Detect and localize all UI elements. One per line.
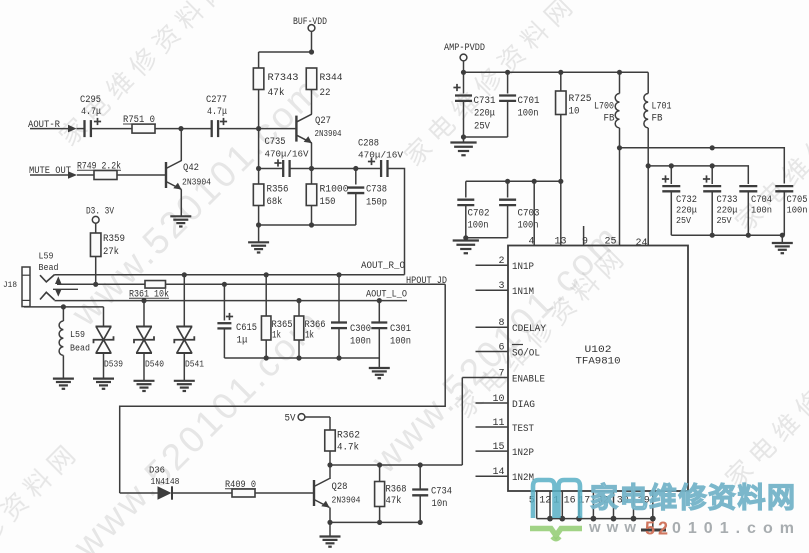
power 5V: [285, 414, 331, 431]
node junction: [256, 166, 261, 171]
svg-text:BUF-VDD: BUF-VDD: [293, 17, 327, 28]
resistor R365: [261, 275, 292, 358]
svg-text:15: 15: [492, 442, 504, 453]
svg-text:100n: 100n: [518, 221, 539, 232]
node junction: [710, 145, 715, 150]
node junction: [327, 520, 332, 525]
svg-text:6: 6: [498, 342, 504, 353]
node junction: [418, 520, 423, 525]
wire: [258, 129, 260, 169]
node junction: [61, 304, 66, 309]
svg-text:C300: C300: [350, 324, 371, 335]
capacitor C738: [347, 169, 387, 226]
svg-text:C702: C702: [468, 209, 490, 220]
node junction: [669, 163, 674, 168]
capacitor C731: [453, 72, 495, 137]
svg-text:4.7μ: 4.7μ: [207, 107, 227, 118]
pin 19 stub: [652, 491, 654, 519]
resistor R368: [375, 465, 407, 522]
wire top rail: [464, 71, 649, 73]
connector J18: [3, 267, 30, 307]
svg-text:R344: R344: [320, 73, 343, 84]
node junction: [336, 272, 341, 277]
svg-text:Q28: Q28: [332, 482, 348, 493]
wire: [255, 492, 314, 494]
wire pin9 stub: [583, 226, 585, 246]
resistor R344: [306, 68, 342, 99]
resistor R751: [123, 115, 156, 133]
node junction: [309, 166, 314, 171]
node junction: [461, 70, 466, 75]
svg-text:1k: 1k: [305, 330, 314, 342]
svg-text:D36: D36: [149, 465, 165, 476]
svg-text:100n: 100n: [751, 205, 772, 216]
svg-text:C615: C615: [236, 323, 257, 334]
wire AOUT_R_O: [55, 274, 405, 276]
resistor R409: [225, 480, 256, 497]
ground: [453, 239, 479, 241]
pin 32 stub: [613, 491, 615, 519]
node junction: [222, 282, 227, 287]
ground: [641, 529, 666, 532]
node junction: [710, 163, 715, 168]
node junction: [296, 355, 301, 360]
wire: [329, 522, 331, 536]
ground: [53, 378, 74, 380]
pin 16 stub: [578, 491, 580, 519]
wire: [258, 90, 260, 129]
svg-text:Bead: Bead: [70, 343, 90, 354]
node junction: [617, 145, 622, 150]
svg-text:10: 10: [492, 394, 504, 405]
pin 10 stub: [476, 402, 509, 404]
wire collector Q28: [329, 465, 331, 479]
svg-text:R356: R356: [267, 185, 289, 196]
svg-text:C701: C701: [518, 96, 540, 107]
ground: [772, 242, 793, 244]
logo book underline swoosh: [530, 529, 582, 536]
pin 14 stub: [476, 475, 509, 477]
wire: [781, 235, 783, 242]
svg-text:D541: D541: [185, 359, 204, 370]
wire HPOUT_JD right: [166, 283, 446, 285]
svg-text:SO/OL: SO/OL: [512, 347, 540, 359]
node junction: [532, 179, 537, 184]
svg-text:D3. 3V: D3. 3V: [86, 207, 114, 218]
capacitor C701: [464, 72, 540, 137]
svg-text:R366: R366: [305, 320, 326, 331]
capacitor C705: [775, 186, 807, 235]
svg-text:家电维修资料网: 家电维修资料网: [590, 481, 797, 513]
node junction: [611, 516, 617, 522]
svg-text:7: 7: [498, 368, 504, 379]
resistor R7343: [253, 68, 298, 99]
svg-text:100n: 100n: [518, 109, 539, 120]
svg-text:2: 2: [498, 256, 504, 267]
capacitor C704: [739, 184, 772, 236]
svg-text:4.7k: 4.7k: [337, 442, 359, 454]
node junction: [780, 233, 785, 238]
resistor R359: [90, 233, 125, 258]
svg-text:100n: 100n: [350, 337, 371, 348]
wire bottom rail: [671, 234, 784, 236]
inductor L700: [594, 72, 620, 148]
svg-text:150p: 150p: [366, 198, 387, 209]
svg-text:AOUT_L_O: AOUT_L_O: [366, 290, 407, 301]
svg-text:25V: 25V: [676, 215, 691, 226]
svg-text:J18: J18: [3, 280, 17, 290]
ground: [369, 367, 390, 369]
svg-text:R725: R725: [569, 94, 592, 105]
pin 8 stub: [476, 326, 509, 328]
node junction: [182, 272, 187, 277]
svg-text:2N3904: 2N3904: [315, 128, 342, 139]
svg-text:L59: L59: [70, 329, 85, 340]
node junction: [377, 462, 382, 467]
wire jack sleeve: [24, 306, 104, 308]
capacitor C702: [457, 181, 489, 238]
capacitor C734: [412, 465, 452, 522]
power BUF-VDD: [293, 17, 327, 52]
wire AOUT_L_O: [55, 300, 408, 302]
wire: [218, 128, 296, 130]
wire emitter Q42: [180, 190, 182, 217]
node junction: [353, 166, 358, 171]
svg-text:100n: 100n: [787, 205, 808, 216]
capacitor C703: [466, 181, 540, 238]
node junction: [463, 235, 468, 240]
ground: [170, 215, 191, 217]
svg-text:68k: 68k: [267, 196, 283, 208]
node junction: [559, 516, 565, 522]
pin 5 stub: [536, 491, 538, 519]
svg-text:4.7μ: 4.7μ: [81, 107, 101, 118]
node junction: [505, 70, 510, 75]
diode D541: [174, 275, 204, 380]
pin 7 stub ENABLE: [462, 377, 508, 379]
node junction: [309, 49, 314, 54]
node junction: [327, 462, 332, 467]
node junction: [710, 233, 715, 238]
node junction: [296, 298, 301, 303]
svg-text:470μ/16V: 470μ/16V: [265, 149, 309, 160]
wire L701 output rail: [648, 166, 748, 184]
wire bottom rail: [330, 521, 420, 523]
wire bottom rail: [258, 206, 260, 226]
resistor R725: [556, 72, 592, 181]
wire to ENABLE: [461, 378, 463, 466]
ground: [248, 241, 269, 243]
node junction: [377, 520, 382, 525]
wire collector rail: [330, 464, 462, 466]
inductor L59 bead: [59, 307, 90, 378]
svg-text:C731: C731: [474, 96, 496, 107]
svg-text:25V: 25V: [717, 215, 732, 226]
pin 11 stub: [476, 426, 509, 428]
pin 30 stub: [633, 491, 635, 519]
node junction: [576, 516, 582, 522]
svg-text:14: 14: [492, 467, 504, 478]
svg-text:2N3904: 2N3904: [182, 177, 211, 188]
capacitor C733: [703, 166, 738, 235]
svg-text:TEST: TEST: [512, 424, 534, 435]
svg-text:FB: FB: [652, 114, 663, 125]
node junction: [418, 462, 423, 467]
inductor L701: [644, 72, 672, 166]
svg-text:R365: R365: [272, 320, 293, 331]
svg-text:C277: C277: [206, 95, 227, 106]
node junction: [93, 282, 98, 287]
node junction: [617, 70, 622, 75]
svg-text:Bead: Bead: [39, 262, 59, 273]
op-amp U102 TFA9810 body: [508, 246, 688, 492]
wire: [463, 137, 465, 142]
node junction: [505, 179, 510, 184]
resistor R366: [294, 301, 325, 358]
svg-text:C734: C734: [431, 487, 452, 498]
svg-text:TFA9810: TFA9810: [576, 356, 621, 368]
svg-text:3: 3: [498, 281, 504, 292]
transistor Q27: [296, 114, 341, 143]
jack switch arrow down: [53, 289, 78, 296]
resistor R356: [253, 169, 288, 209]
svg-text:10: 10: [569, 107, 580, 118]
svg-text:220μ: 220μ: [676, 205, 697, 216]
pin 1 stub: [561, 491, 563, 519]
jack ring contact: [40, 292, 55, 300]
svg-text:C703: C703: [518, 209, 540, 220]
svg-text:100n: 100n: [468, 221, 489, 232]
svg-text:L701: L701: [652, 102, 672, 113]
wire: [155, 128, 181, 130]
svg-text:150: 150: [320, 197, 336, 208]
transistor Q28: [314, 479, 361, 508]
jack switch arrow up: [55, 276, 62, 284]
wire pin24: [647, 166, 649, 246]
svg-text:100n: 100n: [390, 337, 411, 348]
ground: [174, 380, 195, 382]
node junction: [309, 222, 314, 227]
svg-text:Q27: Q27: [315, 116, 331, 127]
pin 3 stub: [476, 289, 509, 291]
svg-text:16: 16: [564, 496, 576, 507]
svg-text:D539: D539: [104, 359, 123, 370]
transistor Q42: [166, 161, 211, 190]
wire emitter Q28: [329, 508, 331, 523]
svg-text:47k: 47k: [268, 87, 285, 99]
svg-text:C735: C735: [265, 137, 286, 148]
node junction: [461, 134, 466, 139]
capacitor C277: [206, 95, 227, 137]
power D3.3V: [86, 207, 114, 234]
node junction: [264, 272, 269, 277]
ground: [320, 535, 341, 537]
pin 15 stub: [476, 450, 509, 452]
svg-text:R7343: R7343: [268, 73, 299, 84]
wire L700 output rail: [620, 148, 785, 184]
wire pin4: [533, 181, 535, 245]
capacitor C300: [331, 275, 371, 358]
node AOUT-R: [28, 120, 85, 132]
svg-text:52: 52: [645, 519, 671, 539]
wire HPOUT_JD left: [57, 283, 145, 285]
svg-text:25V: 25V: [474, 122, 490, 133]
node MUTE_OUT: [29, 166, 94, 179]
node junction: [256, 222, 261, 227]
wire to AOUT_R_O: [388, 169, 405, 275]
svg-text:12: 12: [539, 496, 551, 507]
wire: [91, 128, 132, 130]
svg-text:1k: 1k: [272, 330, 281, 342]
svg-text:DIAG: DIAG: [512, 400, 535, 411]
wire: [378, 358, 380, 368]
wire: [258, 225, 260, 242]
capacitor C735: [259, 137, 312, 177]
pin 12 stub: [549, 491, 551, 519]
logo book icon: [533, 480, 580, 518]
svg-text:1N1M: 1N1M: [512, 287, 534, 298]
wire collector Q42: [180, 129, 182, 161]
svg-text:8: 8: [498, 318, 504, 329]
node junction: [377, 298, 382, 303]
svg-text:27k: 27k: [103, 246, 119, 258]
pin 6 SO overline: [512, 344, 523, 346]
wire bottom rail: [224, 357, 379, 359]
svg-text:1N1P: 1N1P: [512, 262, 534, 273]
wire: [117, 174, 166, 176]
node junction: [558, 179, 563, 184]
svg-text:www: www: [588, 519, 642, 536]
wire: [181, 128, 212, 130]
svg-text:47k: 47k: [386, 495, 402, 507]
svg-text:0101.com: 0101.com: [672, 520, 801, 537]
svg-text:22: 22: [320, 88, 331, 99]
capacitor C732: [662, 166, 697, 235]
svg-text:L59: L59: [39, 251, 54, 262]
wire HPOUT_JD feedback: [120, 284, 446, 493]
svg-text:FB: FB: [604, 114, 615, 125]
diode D539: [94, 307, 124, 378]
svg-text:C301: C301: [390, 324, 411, 335]
svg-text:24: 24: [635, 238, 647, 249]
wire pin25: [619, 148, 621, 246]
svg-text:AMP-PVDD: AMP-PVDD: [444, 43, 485, 54]
resistor R749: [77, 161, 121, 180]
node junction: [646, 163, 651, 168]
svg-text:220μ: 220μ: [474, 109, 495, 120]
svg-text:10n: 10n: [432, 499, 448, 510]
wire: [258, 52, 260, 68]
node junction: [264, 355, 269, 360]
pin 6 stub: [476, 351, 509, 353]
svg-text:HPOUT_JD: HPOUT_JD: [406, 276, 447, 287]
capacitor C288: [358, 139, 403, 178]
wire emitter Q27: [311, 143, 313, 169]
capacitor C295: [80, 95, 101, 137]
svg-text:U102: U102: [585, 344, 612, 356]
svg-text:2N3904: 2N3904: [332, 495, 361, 506]
svg-text:D540: D540: [145, 359, 164, 370]
resistor R1000: [306, 169, 348, 209]
ground: [450, 141, 476, 143]
svg-text:L700: L700: [594, 102, 614, 113]
capacitor C615: [217, 284, 257, 358]
node junction: [650, 516, 656, 522]
jack tip contact: [40, 275, 55, 282]
svg-text:家电维修资料网: 家电维修资料网: [398, 0, 583, 172]
diode D540: [134, 301, 164, 380]
svg-text:CDELAY: CDELAY: [512, 324, 546, 335]
svg-text:R368: R368: [386, 485, 407, 496]
ground: [134, 380, 155, 382]
wire decoupling rail: [466, 180, 561, 182]
svg-text:1N2P: 1N2P: [512, 448, 534, 459]
svg-text:Q42: Q42: [183, 163, 199, 174]
svg-text:1μ: 1μ: [237, 336, 248, 347]
svg-text:C738: C738: [366, 185, 387, 196]
power AMP-PVDD: [444, 43, 485, 72]
node junction: [631, 516, 637, 522]
node junction: [547, 516, 553, 522]
node junction: [591, 516, 597, 522]
node junction: [336, 355, 341, 360]
resistor R361: [129, 281, 169, 301]
ground: [93, 378, 114, 380]
node junction: [746, 233, 751, 238]
diode D36: [120, 465, 232, 500]
wire: [652, 519, 654, 529]
svg-text:R362: R362: [337, 431, 360, 442]
svg-text:R409 0: R409 0: [225, 480, 256, 491]
svg-text:470μ/16V: 470μ/16V: [358, 150, 403, 161]
node junction: [141, 298, 146, 303]
capacitor C301: [371, 301, 411, 358]
resistor R362: [325, 430, 360, 465]
svg-text:1N4148: 1N4148: [151, 476, 180, 487]
svg-text:ENABLE: ENABLE: [512, 374, 545, 385]
svg-text:AOUT_R_O: AOUT_R_O: [361, 261, 405, 272]
wire: [311, 90, 313, 115]
svg-text:C288: C288: [358, 139, 379, 150]
wire bottom bus: [537, 518, 653, 520]
svg-text:R1000: R1000: [320, 185, 349, 196]
svg-text:5V: 5V: [285, 414, 296, 425]
node junction: [558, 70, 563, 75]
node L59 Bead label top: [39, 251, 59, 274]
pin 17 stub: [592, 491, 594, 519]
node junction: [178, 126, 183, 131]
svg-text:家电维修资料网: 家电维修资料网: [719, 309, 809, 494]
wire: [259, 51, 312, 53]
node junction: [256, 126, 261, 131]
wire: [312, 168, 381, 170]
svg-text:C295: C295: [80, 95, 101, 106]
wire pin13: [560, 181, 562, 245]
svg-text:1N2M: 1N2M: [512, 473, 534, 484]
svg-text:11: 11: [492, 418, 504, 429]
wire: [95, 257, 97, 285]
svg-text:R359: R359: [103, 234, 125, 245]
svg-text:220μ: 220μ: [717, 205, 738, 216]
pin 2 stub: [476, 264, 509, 266]
